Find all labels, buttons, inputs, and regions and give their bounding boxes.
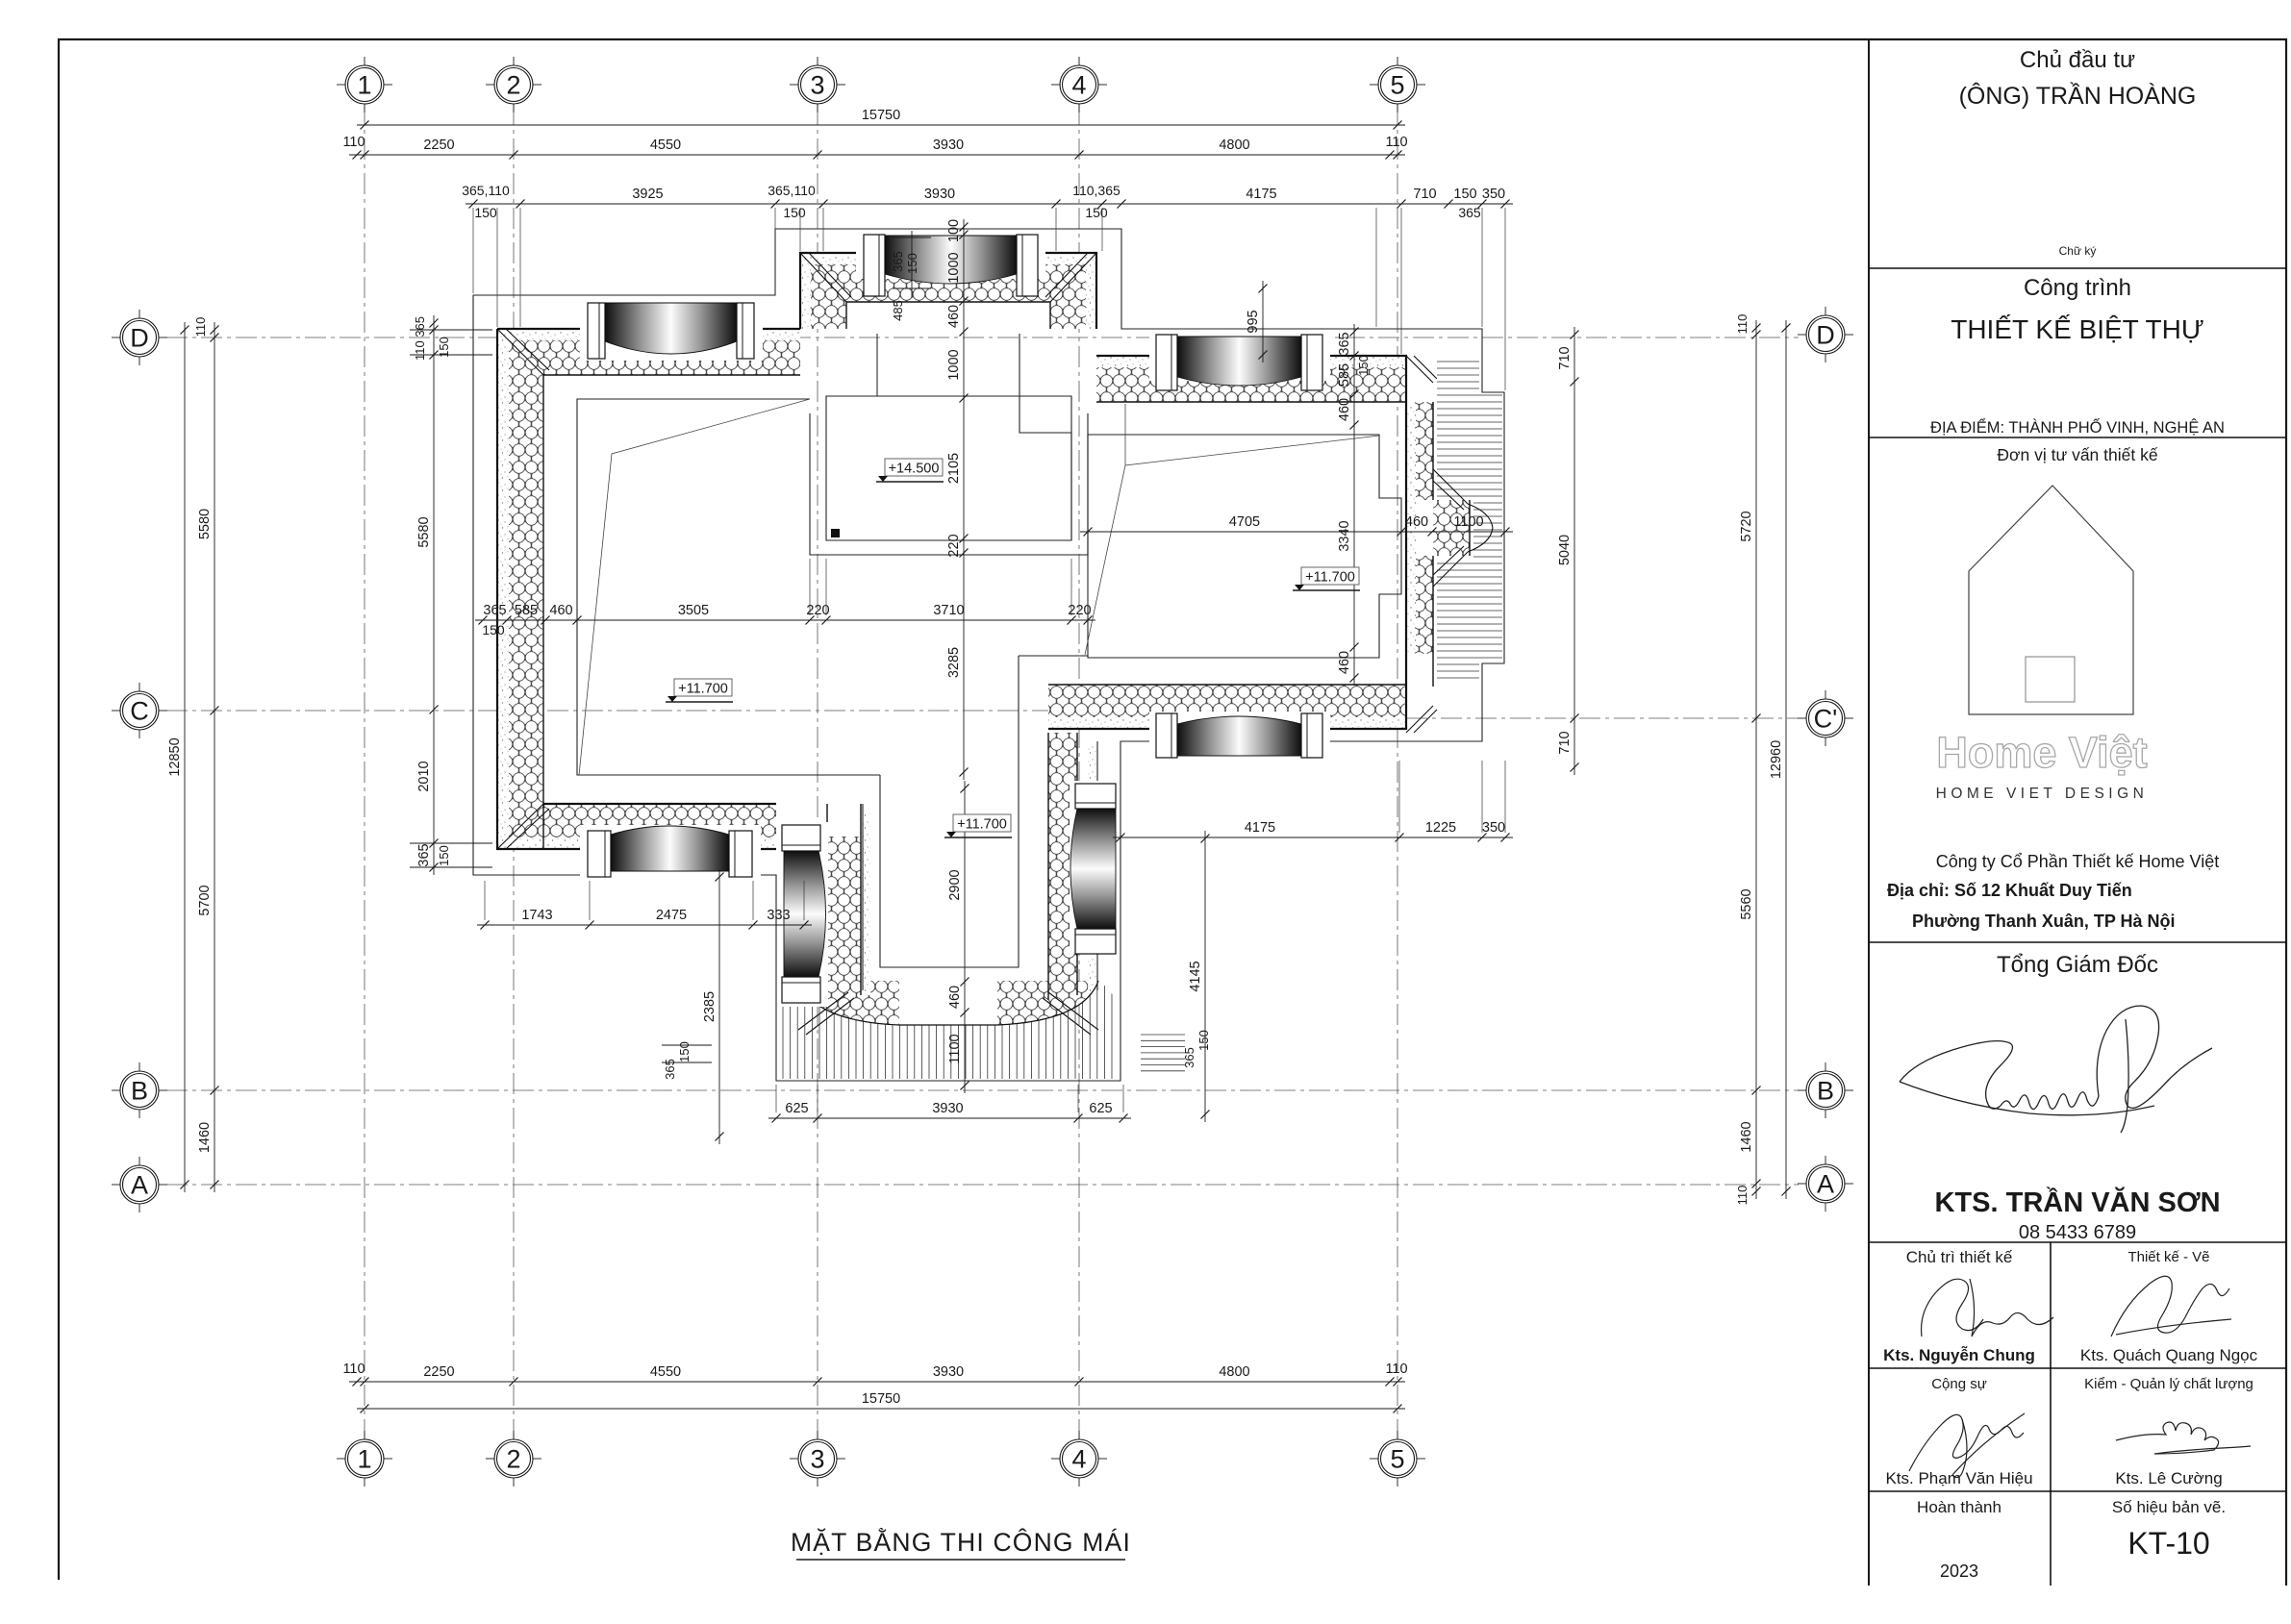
dim col right axis xyxy=(1739,320,1761,1199)
grid line 5 vertical xyxy=(1397,104,1398,1439)
roof tile band tower left strip xyxy=(827,837,861,1000)
dim col left detail xyxy=(416,315,439,875)
svg-text:460: 460 xyxy=(946,305,962,328)
grid bubble D left xyxy=(112,310,167,365)
svg-text:995: 995 xyxy=(1246,310,1261,333)
svg-text:Cộng sự: Cộng sự xyxy=(1931,1376,1987,1392)
svg-text:D: D xyxy=(1816,320,1835,349)
svg-text:150: 150 xyxy=(437,337,451,358)
grid bubble 2 bottom xyxy=(486,1431,541,1487)
dim col right bay xyxy=(1557,327,1579,775)
Home Viet logo house xyxy=(1969,486,2133,714)
svg-text:365: 365 xyxy=(1182,1047,1196,1068)
svg-text:460: 460 xyxy=(1337,398,1352,421)
extension lines bottom xyxy=(485,559,1505,1112)
svg-text:110: 110 xyxy=(193,317,208,337)
svg-text:4800: 4800 xyxy=(1219,137,1249,153)
svg-text:4145: 4145 xyxy=(1188,961,1203,991)
svg-text:110: 110 xyxy=(1385,1362,1407,1377)
tower plateau xyxy=(863,656,1097,990)
svg-text:+14.500: +14.500 xyxy=(889,462,940,477)
roof tile band tower right strip xyxy=(1048,733,1077,1000)
svg-text:333: 333 xyxy=(767,908,790,923)
title block: bottom row xyxy=(1917,1498,2226,1516)
svg-text:3: 3 xyxy=(810,1444,824,1473)
title block: cong trinh xyxy=(1930,275,2225,437)
svg-text:625: 625 xyxy=(785,1101,808,1116)
grid bubble A left xyxy=(112,1157,167,1212)
grid bubble 3 top xyxy=(790,57,845,112)
svg-text:150: 150 xyxy=(474,205,497,220)
left wing roof plateau xyxy=(577,399,880,775)
dim row 4175 right xyxy=(1113,820,1513,842)
svg-text:4175: 4175 xyxy=(1245,820,1275,836)
title block: roles row 2 headers xyxy=(1931,1376,2253,1392)
svg-text:Tổng Giám Đốc: Tổng Giám Đốc xyxy=(1997,952,2158,978)
grid line C xyxy=(166,710,1231,712)
svg-text:5: 5 xyxy=(1390,1444,1404,1473)
svg-text:1225: 1225 xyxy=(1425,820,1456,836)
svg-text:Hoàn thành: Hoàn thành xyxy=(1917,1498,2001,1516)
svg-text:460: 460 xyxy=(1337,651,1352,674)
svg-text:220: 220 xyxy=(946,534,962,557)
grid line B xyxy=(166,1089,1799,1091)
svg-text:5040: 5040 xyxy=(1557,535,1573,565)
right bay roof battens xyxy=(1437,362,1502,678)
dim row 1743/2475 xyxy=(477,908,812,930)
svg-text:Phường Thanh Xuân, TP Hà Nội: Phường Thanh Xuân, TP Hà Nội xyxy=(1912,912,2176,931)
title block: KTS name xyxy=(1934,1186,2220,1243)
svg-text:4: 4 xyxy=(1071,1444,1086,1473)
roof tile band top dormer xyxy=(800,253,1096,329)
svg-text:3285: 3285 xyxy=(946,647,962,678)
dormer interior walls xyxy=(876,334,878,396)
dim labels porch left xyxy=(662,1041,712,1080)
stipple strip outlines xyxy=(497,253,1416,996)
svg-text:4800: 4800 xyxy=(1219,1364,1249,1380)
central +14.500 plateau xyxy=(810,334,1088,555)
svg-text:MẶT BẰNG THI CÔNG MÁI: MẶT BẰNG THI CÔNG MÁI xyxy=(791,1528,1131,1557)
roof tile band right bay strip lower xyxy=(1406,556,1433,654)
porch side battens right xyxy=(1141,1035,1185,1071)
dim labels dormer left xyxy=(891,231,931,321)
roof band edges xyxy=(497,253,1470,1000)
svg-text:3930: 3930 xyxy=(924,187,955,202)
svg-text:2105: 2105 xyxy=(946,453,962,484)
canopy barrel top-center dormer xyxy=(856,232,1045,296)
svg-text:Thiết kế - Vẽ: Thiết kế - Vẽ xyxy=(2127,1249,2209,1265)
svg-text:5580: 5580 xyxy=(197,509,213,539)
right wing interior walls xyxy=(1088,435,1401,658)
svg-text:5580: 5580 xyxy=(416,516,432,547)
svg-text:1: 1 xyxy=(357,70,371,99)
title block left edge xyxy=(1868,38,1870,1586)
svg-text:Công ty Cổ Phần Thiết kế Home: Công ty Cổ Phần Thiết kế Home Việt xyxy=(1936,852,2220,871)
svg-text:12850: 12850 xyxy=(167,737,183,776)
ridge lines left wing xyxy=(579,399,810,775)
svg-text:2010: 2010 xyxy=(416,761,432,791)
canopy barrel porch right vertical xyxy=(1070,781,1120,954)
svg-text:150: 150 xyxy=(783,205,806,220)
svg-text:15750: 15750 xyxy=(862,108,900,123)
signature kiem xyxy=(2116,1422,2251,1454)
svg-text:150: 150 xyxy=(905,253,919,274)
svg-text:110: 110 xyxy=(1735,1186,1750,1206)
svg-text:2: 2 xyxy=(506,1444,520,1473)
grid bubble 5 bottom xyxy=(1370,1431,1425,1487)
svg-text:KT-10: KT-10 xyxy=(2127,1526,2209,1561)
svg-text:365: 365 xyxy=(891,251,905,272)
canopy barrel porch left vertical xyxy=(778,822,828,1007)
svg-text:1743: 1743 xyxy=(521,908,552,923)
svg-text:150: 150 xyxy=(1196,1030,1211,1051)
grid line 2 vertical xyxy=(513,104,515,1439)
roof drip edge outline xyxy=(473,229,1504,1081)
svg-text:Địa chỉ: Số 12 Khuất Duy Tiến: Địa chỉ: Số 12 Khuất Duy Tiến xyxy=(1887,881,2132,900)
dim col 12850 xyxy=(167,322,189,1192)
dim row detail top xyxy=(466,187,1513,209)
svg-text:460: 460 xyxy=(549,603,572,618)
roof tile fan porch left xyxy=(798,981,899,1025)
svg-text:625: 625 xyxy=(1089,1101,1112,1116)
svg-text:110 365: 110 365 xyxy=(413,316,427,361)
title block: company address xyxy=(1887,852,2219,931)
svg-text:4175: 4175 xyxy=(1246,187,1276,202)
right bay hip curves xyxy=(1433,469,1493,587)
dim row axis spacing top xyxy=(349,137,1405,160)
svg-text:5560: 5560 xyxy=(1739,888,1754,919)
svg-text:150: 150 xyxy=(677,1041,692,1062)
svg-text:HOME VIET DESIGN: HOME VIET DESIGN xyxy=(1936,786,2149,802)
svg-text:150: 150 xyxy=(437,845,451,866)
title block: tong giam doc xyxy=(1997,952,2158,978)
svg-text:110: 110 xyxy=(1735,314,1750,335)
dim row axis spacing bottom xyxy=(349,1364,1405,1387)
grid line 4 vertical xyxy=(1078,104,1080,1439)
svg-text:Số hiệu bản vẽ.: Số hiệu bản vẽ. xyxy=(2112,1498,2226,1516)
svg-text:15750: 15750 xyxy=(862,1391,900,1407)
roof tile band top-left xyxy=(497,329,800,375)
svg-text:08 5433 6789: 08 5433 6789 xyxy=(2019,1222,2136,1243)
roof tile band bottom-left xyxy=(497,804,776,849)
svg-text:150: 150 xyxy=(1356,355,1371,376)
svg-text:460: 460 xyxy=(1405,514,1428,530)
svg-text:365: 365 xyxy=(1458,205,1481,220)
svg-text:3930: 3930 xyxy=(933,137,964,153)
svg-text:3: 3 xyxy=(810,70,824,99)
grid line 1 vertical xyxy=(364,104,365,1439)
grid bubble 5 top xyxy=(1370,57,1425,112)
canopy barrel right-wing bottom dormer xyxy=(1149,712,1330,760)
grid bubble D right xyxy=(1798,307,1853,362)
grid bubble 1 bottom xyxy=(337,1431,392,1487)
svg-text:100: 100 xyxy=(946,219,962,242)
svg-text:150: 150 xyxy=(1085,205,1108,220)
svg-text:1460: 1460 xyxy=(197,1122,213,1153)
svg-text:3505: 3505 xyxy=(678,603,709,618)
svg-text:710: 710 xyxy=(1557,731,1573,754)
svg-text:110,365: 110,365 xyxy=(1072,183,1120,198)
level marker +11.700 right xyxy=(1293,567,1360,590)
svg-text:Chữ ký: Chữ ký xyxy=(2059,244,2097,258)
svg-text:710: 710 xyxy=(1557,346,1573,369)
svg-text:12960: 12960 xyxy=(1769,740,1784,779)
drawing title xyxy=(791,1528,1131,1560)
title block dividers xyxy=(1869,268,2286,1586)
svg-text:365: 365 xyxy=(483,603,506,618)
porch eave fan curves xyxy=(798,981,1098,1025)
svg-text:B: B xyxy=(1817,1076,1834,1105)
svg-text:1: 1 xyxy=(357,1444,371,1473)
svg-text:110: 110 xyxy=(1385,135,1407,150)
svg-text:585: 585 xyxy=(1337,363,1352,387)
svg-text:(ÔNG) TRẦN HOÀNG: (ÔNG) TRẦN HOÀNG xyxy=(1959,82,2197,110)
dim row mid 3505/3710 xyxy=(475,603,1095,625)
grid bubble 3 bottom xyxy=(790,1431,845,1487)
dim col 4145 xyxy=(1188,831,1210,1122)
dim col 2900 tower xyxy=(947,781,969,1093)
svg-text:1000: 1000 xyxy=(946,252,962,283)
svg-text:5: 5 xyxy=(1390,70,1404,99)
grid line D xyxy=(166,337,1799,338)
title block: roles row 1 names xyxy=(1883,1346,2257,1364)
signature thiet ke ve xyxy=(2111,1276,2231,1337)
svg-text:4550: 4550 xyxy=(650,1364,681,1380)
svg-text:2: 2 xyxy=(506,70,520,99)
svg-text:4550: 4550 xyxy=(650,137,681,153)
svg-text:365: 365 xyxy=(1337,332,1352,355)
ridge line right wing xyxy=(1085,404,1379,655)
grid bubble C left xyxy=(112,683,167,738)
roof tile band bottom right wing xyxy=(1048,685,1406,729)
svg-text:Home Việt: Home Việt xyxy=(1936,728,2147,777)
canopy barrel top-right dormer xyxy=(1149,333,1330,390)
svg-text:ĐỊA ĐIỂM: THÀNH PHỐ VINH, NGHỆ: ĐỊA ĐIỂM: THÀNH PHỐ VINH, NGHỆ AN xyxy=(1930,417,2225,437)
grid line 3 vertical xyxy=(817,104,818,1439)
grid bubble 4 bottom xyxy=(1051,1431,1107,1487)
svg-text:Chủ đầu tư: Chủ đầu tư xyxy=(2020,47,2135,73)
svg-text:THIẾT KẾ BIỆT THỰ: THIẾT KẾ BIỆT THỰ xyxy=(1951,314,2204,344)
canopy barrel top-left dormer xyxy=(580,299,763,361)
signature TGD xyxy=(1900,1006,2212,1133)
dim col 995 xyxy=(1246,281,1268,362)
svg-text:150: 150 xyxy=(482,622,505,637)
level marker +14.500 xyxy=(876,459,944,482)
dim row 4705 xyxy=(1080,514,1513,537)
roof drain dot xyxy=(831,529,840,537)
grid bubble B right xyxy=(1798,1062,1853,1118)
svg-text:3710: 3710 xyxy=(933,603,964,618)
grid bubble B left xyxy=(112,1062,167,1118)
level marker +11.700 bottom xyxy=(944,814,1012,837)
svg-text:1100: 1100 xyxy=(1453,514,1483,530)
roof tile band right bay strip middle xyxy=(1433,500,1470,556)
svg-text:Kts. Quách Quang Ngọc: Kts. Quách Quang Ngọc xyxy=(2080,1346,2258,1364)
grid bubble 1 top xyxy=(337,57,392,112)
svg-text:3930: 3930 xyxy=(932,1101,963,1116)
svg-text:A: A xyxy=(1817,1169,1834,1198)
svg-text:365: 365 xyxy=(663,1059,677,1080)
svg-text:Đơn vị tư vấn thiết kế: Đơn vị tư vấn thiết kế xyxy=(1997,445,2157,464)
grid line C' xyxy=(1406,717,1799,719)
dim col left axis xyxy=(197,322,219,1192)
roof tile band right bay strip upper xyxy=(1406,402,1433,500)
svg-text:Công trình: Công trình xyxy=(2024,275,2131,301)
svg-text:+11.700: +11.700 xyxy=(957,817,1007,833)
dim row 15750 bottom xyxy=(357,1391,1405,1413)
svg-text:350: 350 xyxy=(1482,820,1505,836)
svg-text:2023: 2023 xyxy=(1940,1562,1978,1581)
svg-text:Kts. Nguyễn Chung: Kts. Nguyễn Chung xyxy=(1883,1346,2035,1364)
Home Viet logo text xyxy=(1936,728,2147,777)
svg-text:2250: 2250 xyxy=(423,1364,454,1380)
svg-text:3930: 3930 xyxy=(933,1364,964,1380)
svg-text:+11.700: +11.700 xyxy=(678,682,728,697)
svg-text:5720: 5720 xyxy=(1739,511,1754,541)
svg-text:C': C' xyxy=(1814,704,1838,733)
svg-text:2475: 2475 xyxy=(656,908,687,923)
hip lines at band corners xyxy=(497,253,1437,1035)
svg-text:460: 460 xyxy=(947,986,963,1009)
svg-text:110: 110 xyxy=(342,135,365,150)
svg-text:KTS. TRẦN VĂN SƠN: KTS. TRẦN VĂN SƠN xyxy=(1934,1186,2220,1218)
signature cong su xyxy=(1909,1413,2025,1478)
roof tile fan porch right xyxy=(997,981,1098,1025)
svg-text:350: 350 xyxy=(1482,187,1505,202)
level marker +11.700 left xyxy=(666,679,733,702)
svg-text:4: 4 xyxy=(1071,70,1086,99)
roof tile band top-right xyxy=(1096,356,1406,402)
svg-text:2385: 2385 xyxy=(702,991,718,1022)
svg-text:110: 110 xyxy=(342,1362,365,1377)
svg-text:Kts. Lê Cường: Kts. Lê Cường xyxy=(2115,1469,2222,1487)
canopy barrel bottom-left dormer xyxy=(580,825,761,879)
dim col 12960 xyxy=(1769,320,1791,1199)
svg-text:5700: 5700 xyxy=(197,885,213,915)
svg-text:Chủ trì thiết kế: Chủ trì thiết kế xyxy=(1906,1248,2013,1266)
svg-text:B: B xyxy=(131,1076,148,1105)
grid bubble 4 top xyxy=(1051,57,1107,112)
title block: don vi tu van xyxy=(1997,445,2157,464)
svg-text:Kiểm - Quản lý chất lượng: Kiểm - Quản lý chất lượng xyxy=(2084,1376,2253,1392)
dim row porch 625 xyxy=(768,1101,1131,1123)
svg-text:A: A xyxy=(131,1170,148,1199)
svg-text:710: 710 xyxy=(1413,187,1436,202)
svg-text:365,110: 365,110 xyxy=(768,183,816,198)
svg-text:3925: 3925 xyxy=(632,187,663,202)
svg-text:D: D xyxy=(130,323,149,352)
svg-text:Kts. Phạm Văn Hiệu: Kts. Phạm Văn Hiệu xyxy=(1885,1469,2032,1487)
roof tile band left xyxy=(497,329,543,849)
grid line A xyxy=(166,1184,1799,1186)
dim row 15750 top xyxy=(357,108,1405,130)
svg-text:1460: 1460 xyxy=(1739,1121,1754,1152)
svg-text:150: 150 xyxy=(1453,187,1476,202)
svg-text:485: 485 xyxy=(891,300,905,321)
dim col right wing xyxy=(1337,324,1359,686)
svg-text:4705: 4705 xyxy=(1229,514,1260,530)
title block: chu dau tu xyxy=(1959,47,2197,258)
svg-text:3340: 3340 xyxy=(1337,520,1352,551)
dim col mid plateau xyxy=(946,219,969,780)
grid bubble 2 top xyxy=(486,57,541,112)
svg-text:1000: 1000 xyxy=(946,349,962,380)
grid bubble C' right xyxy=(1798,690,1853,746)
svg-text:585: 585 xyxy=(515,603,538,618)
svg-text:+11.700: +11.700 xyxy=(1305,570,1355,586)
svg-text:2900: 2900 xyxy=(947,869,963,900)
signature chu tri xyxy=(1922,1279,2053,1337)
svg-text:365,110: 365,110 xyxy=(462,183,510,198)
svg-text:365: 365 xyxy=(416,843,432,866)
title block: roles row 2 names xyxy=(1885,1469,2222,1487)
dim col 2385 xyxy=(702,869,724,1144)
svg-text:1100: 1100 xyxy=(947,1034,963,1063)
title block: roles row 1 headers xyxy=(1906,1248,2210,1266)
svg-text:2250: 2250 xyxy=(423,137,454,153)
extension lines top xyxy=(473,208,1505,390)
svg-text:C: C xyxy=(130,696,149,725)
grid bubble A right xyxy=(1798,1156,1853,1212)
